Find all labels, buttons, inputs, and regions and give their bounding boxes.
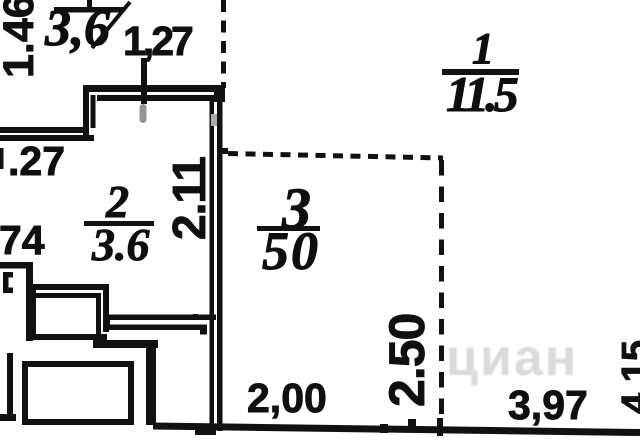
closet2 rectangle [25,364,131,422]
bracket on left edge [3,272,9,293]
wall bump below corridor line [200,329,207,335]
bottom tick small [380,424,388,433]
svg-text:74: 74 [0,217,45,263]
svg-text:50: 50 [262,221,320,281]
svg-text:1,27: 1,27 [123,18,192,64]
dashed vertical top [221,0,226,88]
svg-text:1.46: 1.46 [0,0,43,78]
closet1 bottom line [30,334,107,340]
closet1 top inner line [36,293,100,298]
clipped digit sliver of 3.27 [0,148,4,169]
wall V1 foot [0,414,16,421]
wall top of room 2 lower line [97,95,216,101]
room 3 fraction bar [257,226,320,231]
wall L horizontal x0 [0,262,32,269]
closet1 right outer line [103,284,109,332]
closet1 top outer line [30,284,108,290]
gray mark in wall gap [211,114,217,126]
svg-text:11.5: 11.5 [446,66,518,122]
svg-text:3,6: 3,6 [44,0,110,57]
svg-text:2.50: 2.50 [379,314,435,407]
svg-text:4.15: 4.15 [615,340,640,414]
svg-text:циан: циан [446,329,578,387]
wall right of room 2 outer line [217,86,223,431]
room label top-left bar [54,7,124,13]
wall step vertical inner [91,95,96,128]
room label top-left tick above bar [87,0,92,7]
wall left upper line [0,127,89,133]
wall corridor lower line [109,325,207,331]
wall e vertical [146,340,156,425]
wall left lower line [0,135,94,141]
svg-text:3.6: 3.6 [91,219,150,270]
dashed vertical right [439,160,444,424]
room 2 fraction bar [84,221,154,226]
wall tick above corridor line [193,314,198,318]
closet1 right inner line [96,293,101,335]
room label top-left strike [92,2,130,48]
wall corner blob [214,85,225,102]
svg-text:3,97: 3,97 [508,382,588,428]
bottom boundary line [153,423,640,437]
dashed horizontal [228,154,443,159]
wall step vertical outer [83,85,89,141]
wall corridor upper line [104,315,216,321]
wall L vertical [26,262,33,341]
dimension tick 1.27 [141,58,147,104]
wall right of room 2 inner line [210,95,215,426]
watermark cian [446,329,578,387]
closet1 left wall [30,284,36,340]
bottom line lower bump [195,427,216,435]
bottom tick at dashed line [437,418,443,436]
wall corridor left connector [104,315,110,331]
gray drip under tick [140,104,147,123]
room 1 fraction bar [442,69,519,75]
wall top of room 2 upper line [84,85,225,92]
wall e horizontal [93,340,158,348]
dashed line wall tick [219,148,228,154]
svg-text:.27: .27 [8,138,65,184]
wall V1 lower left vertical [7,353,13,421]
svg-text:2.11: 2.11 [163,157,215,240]
svg-text:2,00: 2,00 [247,375,327,421]
bottom tick small 2 [408,419,416,430]
